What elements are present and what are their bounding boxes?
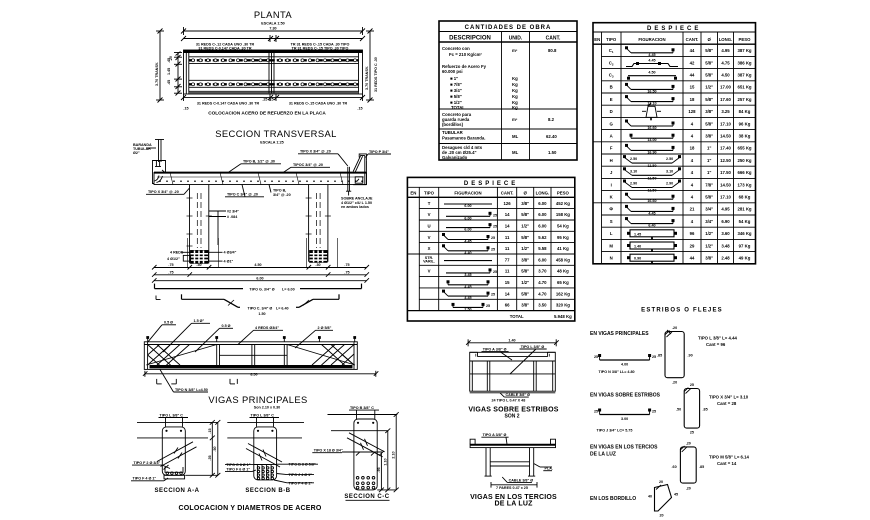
svg-text:C3: C3 [609, 73, 614, 79]
svg-text:D: D [610, 109, 613, 114]
svg-text:TIPO G. 3/4" Ø L= 6.00: TIPO G. 3/4" Ø L= 6.00 [249, 288, 294, 292]
svg-text:J: J [610, 170, 613, 175]
svg-text:5/8": 5/8" [705, 121, 713, 126]
svg-text:Kg: Kg [512, 88, 518, 93]
svg-text:.60: .60 [672, 465, 677, 469]
svg-text:3/4": 3/4" [705, 207, 713, 212]
svg-text:V: V [428, 269, 431, 274]
svg-text:1/2": 1/2" [521, 246, 529, 251]
svg-text:#2 3/4": #2 3/4" [227, 210, 239, 214]
svg-text:281 Kg: 281 Kg [737, 207, 751, 212]
beam bottom reinforcement band (black) [150, 365, 353, 368]
svg-text:K: K [610, 195, 614, 200]
beam stirrup verticals [217, 345, 287, 366]
tipo N hook bar [594, 354, 656, 374]
svg-text:8.2: 8.2 [548, 117, 555, 122]
svg-text:1.45: 1.45 [167, 68, 171, 75]
deck slab outline [154, 173, 367, 185]
svg-text:■ 5/8": ■ 5/8" [450, 94, 462, 99]
svg-text:17.40: 17.40 [720, 146, 731, 151]
bordillo stirrup (trapezoid) [648, 480, 678, 518]
svg-text:4.50: 4.50 [648, 71, 655, 75]
svg-text:EN VIGAS PRINCIPALES: EN VIGAS PRINCIPALES [590, 331, 649, 337]
svg-text:CANT.: CANT. [501, 191, 514, 196]
seccion A-A label tipo L [159, 413, 189, 427]
anclaje vertical bar right [346, 167, 351, 191]
svg-text:25: 25 [493, 225, 497, 229]
vigas tercios deck flange [470, 439, 555, 447]
svg-text:84 Kg: 84 Kg [739, 109, 751, 114]
seccion C-C diagonal bar symbol [347, 433, 385, 457]
svg-text:N: N [610, 256, 613, 261]
svg-text:7.30: 7.30 [269, 27, 276, 31]
seccion B-B context lines [227, 422, 304, 438]
beam internal diagonals left end [146, 345, 216, 366]
despiece right row 4 tipo B [610, 83, 752, 94]
svg-text:Cant = 28: Cant = 28 [717, 401, 737, 406]
svg-text:.75: .75 [168, 263, 173, 267]
svg-text:.85: .85 [703, 408, 708, 412]
svg-text:128: 128 [688, 109, 696, 114]
svg-text:SECCION A-A: SECCION A-A [155, 488, 200, 494]
svg-text:TIPO L 3/8" Ø: TIPO L 3/8" Ø [521, 345, 545, 349]
seccion C-C bottom bars [356, 477, 375, 489]
svg-text:G: G [610, 121, 614, 126]
svg-text:3/8": 3/8" [521, 201, 529, 206]
svg-text:2.48: 2.48 [721, 256, 730, 261]
svg-text:VIGAS PRINCIPALES: VIGAS PRINCIPALES [208, 394, 307, 405]
svg-text:4 Ø3/4": 4 Ø3/4" [224, 251, 237, 255]
svg-text:5.62: 5.62 [538, 235, 547, 240]
svg-text:7 PARES 0.47 x 25: 7 PARES 0.47 x 25 [496, 486, 528, 490]
svg-text:1.10: 1.10 [383, 458, 387, 465]
svg-text:1": 1" [707, 146, 711, 151]
vigas sobre estribos deck profile [470, 352, 556, 361]
svg-text:DE LA LUZ: DE LA LUZ [494, 501, 533, 508]
svg-text:TIPO F 4 Ø 1": TIPO F 4 Ø 1" [289, 481, 313, 485]
table DESPIECE (right) header [594, 37, 751, 42]
svg-text:60.000 psi: 60.000 psi [442, 69, 463, 74]
svg-text:386 Kg: 386 Kg [737, 60, 751, 65]
svg-text:250 Kg: 250 Kg [737, 158, 751, 163]
svg-text:14: 14 [505, 223, 510, 228]
svg-text:SON 2: SON 2 [504, 413, 519, 419]
svg-text:4.40: 4.40 [464, 251, 471, 255]
svg-text:VARIL.: VARIL. [423, 260, 435, 264]
svg-text:I: I [611, 182, 612, 187]
planta far-left vertical dimension with rotated label [155, 29, 164, 103]
despiece mid total row [510, 314, 572, 319]
planta second dimension line (two halves 3.65) [181, 35, 365, 42]
pier left labels (#2 3/4) [209, 210, 239, 246]
despiece mid row 1 tipo T [428, 201, 571, 208]
despiece right row 1 tipo C&#8321; [609, 46, 752, 57]
despiece right row 5 tipo E [610, 95, 752, 106]
svg-text:TIPO X 3/4" @ .20: TIPO X 3/4" @ .20 [148, 190, 179, 194]
seccion A-A outline [162, 427, 185, 475]
row desagues [442, 145, 557, 160]
svg-text:TIPO X 3/4" L= 3.10: TIPO X 3/4" L= 3.10 [709, 395, 749, 400]
svg-text:4: 4 [691, 121, 694, 126]
beam bottom sub ticks [157, 379, 238, 384]
svg-text:L: L [610, 231, 613, 236]
svg-text:3.70 TRANSV.: 3.70 TRANSV. [155, 62, 159, 86]
seccion C-C label tipo B [349, 406, 379, 419]
svg-text:96: 96 [690, 231, 695, 236]
svg-text:TIPO: TIPO [424, 191, 435, 196]
svg-text:16.90: 16.90 [647, 150, 656, 154]
svg-text:25: 25 [652, 410, 656, 414]
svg-text:1/2": 1/2" [521, 280, 529, 285]
planta slab top edge (thick band) [184, 50, 363, 53]
svg-text:42: 42 [690, 60, 695, 65]
planta left vertical dimension chain [167, 52, 182, 96]
despiece mid row 4 tipo V [428, 233, 570, 244]
svg-text:77: 77 [505, 257, 510, 262]
planta middle joint (double vertical divider) [269, 53, 274, 93]
svg-text:.30: .30 [315, 263, 320, 267]
svg-text:EN: EN [410, 191, 416, 196]
svg-text:16.60: 16.60 [647, 199, 656, 203]
svg-text:.15: .15 [357, 107, 362, 111]
svg-text:45: 45 [674, 493, 678, 497]
svg-text:2.90: 2.90 [666, 182, 673, 186]
svg-text:3/4" @ .20: 3/4" @ .20 [273, 193, 291, 197]
svg-text:458 Kg: 458 Kg [556, 257, 570, 262]
tipo M stirrup [672, 442, 705, 491]
seccion C-C cut line [342, 452, 382, 456]
svg-text:5/8": 5/8" [705, 48, 713, 53]
svg-text:1/2": 1/2" [521, 223, 529, 228]
svg-text:TIPO: TIPO [606, 37, 617, 42]
despiece mid row 8 tipo blank [447, 280, 570, 289]
svg-text:5.948 Kg: 5.948 Kg [554, 314, 572, 319]
svg-text:4 REDS Ø3/4": 4 REDS Ø3/4" [255, 326, 279, 330]
svg-text:0.5 Ø: 0.5 Ø [164, 321, 173, 325]
svg-text:EN: EN [594, 37, 600, 42]
svg-text:Ø2": Ø2" [133, 151, 140, 155]
svg-text:16.50: 16.50 [647, 89, 656, 93]
svg-text:2.50: 2.50 [666, 157, 673, 161]
svg-text:655 Kg: 655 Kg [737, 146, 751, 151]
svg-text:1": 1" [707, 158, 711, 163]
svg-text:126: 126 [504, 201, 512, 206]
svg-text:25: 25 [491, 236, 495, 240]
svg-text:4: 4 [691, 134, 694, 139]
svg-text:44: 44 [690, 256, 695, 261]
despiece right row 8 tipo A [610, 134, 751, 143]
svg-text:1.40: 1.40 [508, 338, 515, 342]
svg-text:Kg: Kg [512, 76, 518, 81]
pier extension lines to dimension row [187, 238, 337, 268]
svg-text:651 Kg: 651 Kg [737, 85, 751, 90]
seccion B-B diagonal bar symbol [246, 444, 282, 468]
svg-text:17.60: 17.60 [720, 97, 731, 102]
svg-text:E: E [610, 97, 613, 102]
vigas tercios web [485, 448, 536, 477]
svg-text:2.90: 2.90 [630, 182, 637, 186]
svg-text:TOTAL: TOTAL [510, 314, 524, 319]
svg-text:.75: .75 [168, 270, 173, 274]
slab rebar dots [159, 180, 363, 182]
svg-text:7/8": 7/8" [705, 182, 713, 187]
planta slab outline [184, 50, 363, 94]
label tipo X top right [298, 150, 348, 167]
svg-text:2 Ø 5/8": 2 Ø 5/8" [318, 326, 332, 330]
svg-text:TUBULAR: TUBULAR [442, 130, 464, 135]
svg-text:# .084: # .084 [227, 215, 238, 219]
beam top tick marks [146, 336, 356, 342]
svg-text:17.00: 17.00 [720, 85, 731, 90]
svg-text:4.95: 4.95 [721, 48, 730, 53]
tipo L text [698, 336, 737, 348]
svg-text:H: H [610, 158, 613, 163]
svg-text:TIPO J 3/4" LC= 5.75: TIPO J 3/4" LC= 5.75 [597, 429, 633, 433]
svg-text:0.5 Ø: 0.5 Ø [222, 324, 231, 328]
svg-text:■ 1": ■ 1" [450, 76, 458, 81]
svg-text:.90: .90 [688, 354, 693, 358]
svg-text:EN LOS BORDILLO: EN LOS BORDILLO [590, 496, 636, 502]
svg-text:31 REDS C-0.147 CADA UNO .30: 31 REDS C-0.147 CADA UNO .30 TR [197, 102, 260, 106]
seccion B-B label tipo L [250, 413, 280, 427]
svg-text:44: 44 [690, 73, 695, 78]
svg-text:5.58: 5.58 [538, 246, 547, 251]
svg-text:25: 25 [486, 304, 490, 308]
svg-text:Cant = 96: Cant = 96 [706, 342, 726, 347]
svg-text:A: A [610, 134, 613, 139]
despiece right row 13 tipo K [610, 193, 751, 204]
tipo C bent bar [156, 294, 339, 316]
planta interior longitudinal lines [189, 57, 359, 93]
svg-text:Galvanizado: Galvanizado [442, 155, 468, 160]
svg-text:1.40: 1.40 [634, 245, 641, 249]
svg-text:15: 15 [505, 280, 510, 285]
svg-text:.45: .45 [167, 80, 171, 85]
svg-text:0.90: 0.90 [634, 257, 641, 261]
pier left footing labels [167, 251, 237, 264]
pier left footing block [191, 251, 209, 264]
svg-text:TIPO L 3/8" L= 4.44: TIPO L 3/8" L= 4.44 [698, 336, 737, 341]
svg-text:4.00: 4.00 [621, 363, 628, 367]
svg-text:31 REDS C-.15 CADA UNO .30 TR: 31 REDS C-.15 CADA UNO .30 TR [289, 102, 348, 106]
vigas sobre estribos bottom labels [492, 393, 531, 403]
svg-text:Pasamanos Baranda.: Pasamanos Baranda. [442, 136, 485, 141]
seccion C-C left label [312, 449, 343, 453]
svg-text:96 Kg: 96 Kg [739, 121, 751, 126]
planta rebar band bottom (dashed with circles) [189, 83, 359, 85]
svg-text:(bordillos): (bordillos) [442, 122, 464, 127]
svg-text:1.50: 1.50 [258, 312, 265, 316]
svg-text:■ 3/4": ■ 3/4" [450, 88, 462, 93]
svg-text:6.90: 6.90 [721, 219, 730, 224]
svg-text:3/8": 3/8" [521, 257, 529, 262]
svg-text:346 Kg: 346 Kg [737, 231, 751, 236]
svg-text:48 Kg: 48 Kg [557, 269, 569, 274]
svg-text:6.00: 6.00 [538, 257, 547, 262]
svg-text:14: 14 [505, 291, 510, 296]
svg-text:Φ: Φ [609, 207, 613, 212]
svg-text:.50: .50 [676, 408, 681, 412]
svg-text:6.00: 6.00 [464, 228, 471, 232]
svg-text:TIPO N 3/8" LL= 4.80: TIPO N 3/8" LL= 4.80 [599, 370, 635, 374]
label tipo X left of slab [146, 188, 190, 194]
despiece right row 6 tipo D [610, 103, 751, 120]
svg-text:U: U [427, 223, 430, 228]
svg-text:3/8": 3/8" [705, 256, 713, 261]
tipo J hook bar [594, 409, 656, 433]
svg-text:DESPIECE: DESPIECE [647, 26, 701, 32]
svg-text:4.50: 4.50 [254, 263, 261, 267]
svg-text:F: F [610, 146, 613, 151]
svg-text:TIPO L 3/8" C: TIPO L 3/8" C [251, 413, 275, 417]
table DESPIECE (right) frame [593, 23, 756, 264]
despiece right row 7 tipo G [610, 120, 751, 131]
svg-text:TIPO F 2 Ø 3/4": TIPO F 2 Ø 3/4" [134, 461, 161, 465]
beam middle longitudinal bar [220, 354, 288, 356]
svg-text:4.50: 4.50 [721, 73, 730, 78]
svg-text:B: B [610, 85, 613, 90]
tipo G bar [155, 284, 362, 292]
svg-text:11: 11 [505, 246, 510, 251]
svg-text:CANT.: CANT. [546, 36, 561, 42]
svg-text:.95: .95 [377, 467, 381, 472]
svg-text:TIPO C 3/4" @ .20: TIPO C 3/4" @ .20 [227, 193, 258, 197]
svg-text:25: 25 [594, 410, 598, 414]
svg-text:Concreto con: Concreto con [442, 46, 470, 51]
svg-text:6.00: 6.00 [538, 201, 547, 206]
svg-text:11: 11 [505, 235, 510, 240]
svg-text:PESO: PESO [739, 37, 752, 42]
despiece right row 14 tipo &#934; [609, 205, 751, 216]
table CANTIDADES header [449, 36, 561, 42]
svg-text:80.8: 80.8 [548, 48, 557, 53]
svg-text:14: 14 [505, 212, 510, 217]
guarda rueda block right (sloped) [353, 154, 366, 185]
pier left edge ticks [187, 198, 212, 246]
svg-text:DE LA LUZ: DE LA LUZ [590, 452, 616, 458]
svg-text:Kg: Kg [512, 82, 518, 87]
svg-text:17.50: 17.50 [720, 170, 731, 175]
svg-text:3.50: 3.50 [538, 303, 547, 308]
svg-text:4.45: 4.45 [648, 53, 655, 57]
svg-text:FIGURACION: FIGURACION [638, 37, 665, 42]
planta rebar band top (dashed with circles) [189, 59, 359, 61]
svg-text:EN VIGAS SOBRE ESTRIBOS: EN VIGAS SOBRE ESTRIBOS [590, 393, 661, 399]
svg-text:1/2": 1/2" [705, 85, 713, 90]
svg-text:20: 20 [659, 514, 663, 518]
svg-text:3.45: 3.45 [464, 273, 471, 277]
svg-text:ESCALA 1:50: ESCALA 1:50 [261, 22, 284, 26]
svg-text:17.10: 17.10 [720, 195, 731, 200]
svg-text:PESO: PESO [557, 191, 570, 196]
beam internal diagonals right end [287, 345, 355, 366]
vigas tercios bottom labels [491, 477, 537, 490]
svg-text:SECCION TRANSVERSAL: SECCION TRANSVERSAL [215, 128, 337, 139]
svg-text:m³: m³ [512, 48, 518, 53]
despiece right row 18 tipo N [610, 254, 751, 264]
svg-text:.20: .20 [672, 326, 677, 330]
svg-text:31 REDS TIPO C .30: 31 REDS TIPO C .30 [374, 57, 378, 92]
svg-text:3.10: 3.10 [630, 169, 637, 173]
svg-text:2.50: 2.50 [630, 157, 637, 161]
seccion A-A context lines [137, 422, 212, 438]
svg-text:m³: m³ [512, 117, 518, 122]
svg-text:1.5 Ø": 1.5 Ø" [194, 319, 205, 323]
svg-text:4.70: 4.70 [538, 291, 547, 296]
svg-text:25: 25 [652, 355, 656, 359]
pier right footing block [310, 251, 328, 263]
svg-text:4: 4 [691, 219, 694, 224]
svg-text:5/8": 5/8" [521, 291, 529, 296]
pier left outline [190, 185, 209, 264]
seccion A-A right dimensions [185, 420, 220, 478]
svg-text:Cant = 14: Cant = 14 [717, 461, 737, 466]
despiece right row 15 tipo S [610, 217, 751, 228]
svg-text:M: M [609, 243, 613, 248]
svg-text:4 Ø1": 4 Ø1" [224, 260, 234, 264]
label tipo P (right baranda) [366, 150, 392, 158]
svg-text:5/8": 5/8" [705, 73, 713, 78]
svg-text:4: 4 [691, 195, 694, 200]
svg-text:6.00: 6.00 [256, 276, 263, 280]
svg-text:ESCALA 1:25: ESCALA 1:25 [260, 141, 283, 145]
svg-text:4.75: 4.75 [721, 60, 730, 65]
svg-text:24 TIPO L 0.47 X 48: 24 TIPO L 0.47 X 48 [492, 398, 526, 402]
despiece right row 11 tipo J [610, 167, 752, 180]
despiece right row 9 tipo F [610, 144, 752, 155]
svg-text:4.45: 4.45 [464, 285, 471, 289]
seccion C-C outline [354, 419, 377, 490]
tipo M text [709, 455, 749, 467]
slab tick marks [170, 173, 343, 185]
svg-text:3.70: 3.70 [538, 269, 547, 274]
svg-text:6.40: 6.40 [648, 224, 655, 228]
seccion A-A diagonal bar symbol [157, 442, 197, 467]
seccion C-C corner bars [357, 422, 374, 424]
svg-text:3.00: 3.00 [621, 417, 628, 421]
svg-text:.35: .35 [208, 455, 212, 460]
seccion A-A bottom bars [164, 465, 184, 474]
svg-text:666 Kg: 666 Kg [737, 170, 751, 175]
svg-text:25: 25 [493, 213, 497, 217]
svg-text:DESCRIPCION: DESCRIPCION [449, 36, 491, 42]
svg-text:EN VIGAS EN LOS TERCIOS: EN VIGAS EN LOS TERCIOS [590, 445, 658, 451]
svg-text:25: 25 [690, 431, 694, 435]
svg-text:4: 4 [691, 158, 694, 163]
svg-text:Ø: Ø [708, 37, 712, 42]
svg-text:C2: C2 [609, 60, 614, 66]
svg-text:44: 44 [690, 48, 695, 53]
svg-text:3/8": 3/8" [521, 303, 529, 308]
svg-text:VIGAS SOBRE ESTRIBOS: VIGAS SOBRE ESTRIBOS [468, 406, 558, 413]
svg-text:11: 11 [505, 269, 510, 274]
svg-text:65 Kg: 65 Kg [557, 280, 569, 285]
svg-text:.20: .20 [686, 442, 691, 446]
svg-text:COLOCACION Y DIAMETROS DE: COLOCACION Y DIAMETROS DE ACERO [179, 505, 322, 512]
svg-text:3/4": 3/4" [705, 219, 713, 224]
svg-text:Son 2.10 x 0.30: Son 2.10 x 0.30 [254, 406, 280, 410]
svg-text:25: 25 [491, 247, 495, 251]
svg-text:ML: ML [512, 134, 519, 139]
tipo X text [709, 395, 749, 407]
svg-text:14.00: 14.00 [647, 138, 656, 142]
svg-text:4.70: 4.70 [538, 280, 547, 285]
tipo L stirrup [657, 326, 693, 385]
svg-text:4.45: 4.45 [648, 59, 655, 63]
label tipo C below slab [225, 185, 264, 197]
seccion C-C caption [344, 494, 389, 500]
svg-text:25: 25 [491, 293, 495, 297]
